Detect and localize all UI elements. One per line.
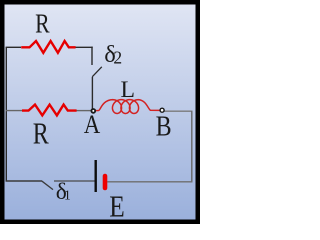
svg-text:1: 1	[64, 187, 71, 202]
svg-text:2: 2	[113, 48, 122, 68]
svg-text:E: E	[109, 189, 125, 224]
svg-text:R: R	[33, 115, 49, 150]
svg-text:A: A	[84, 109, 101, 139]
svg-text:B: B	[156, 111, 172, 142]
svg-text:R: R	[35, 9, 50, 39]
svg-text:L: L	[121, 77, 136, 102]
